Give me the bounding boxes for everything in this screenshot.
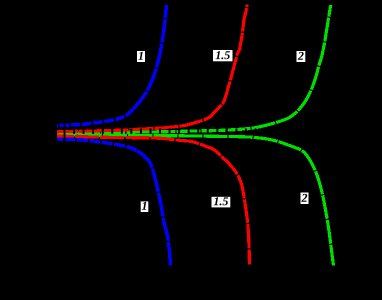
curve blue down steep (exponent 1) bbox=[137, 151, 170, 266]
curve blue down flat (exponent 1) bbox=[57, 139, 137, 151]
curve blue up steep (exponent 1) bbox=[133, 5, 166, 109]
curve red down (exponent 1.5) bbox=[57, 136, 249, 264]
x-axis tick marks (black, overlay) bbox=[64, 123, 333, 143]
curve green up (exponent 2) bbox=[57, 5, 331, 133]
label bottom 1 bbox=[141, 201, 149, 212]
curve blue up flat (exponent 1) bbox=[57, 109, 133, 126]
curve green down (exponent 2) bbox=[57, 135, 334, 266]
curve red up (exponent 1.5) bbox=[57, 5, 247, 132]
label bottom 1.5 bbox=[212, 197, 231, 208]
label top 1.5 bbox=[213, 50, 233, 61]
label bottom 2 bbox=[301, 193, 309, 205]
label top 1 bbox=[137, 51, 145, 62]
label top 2 bbox=[297, 51, 306, 62]
